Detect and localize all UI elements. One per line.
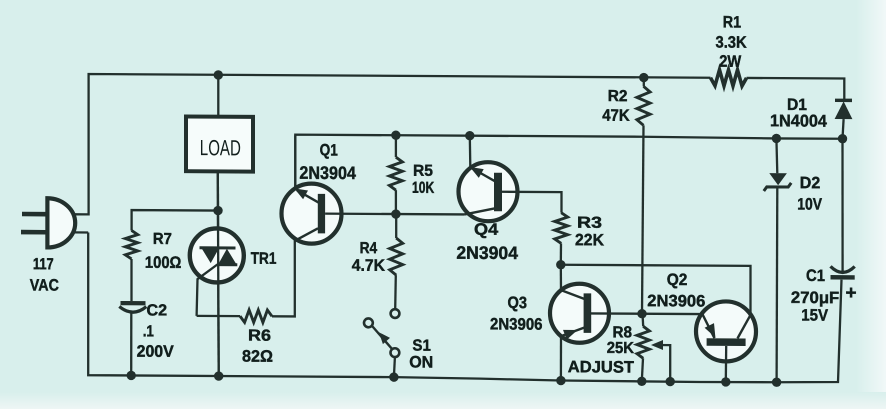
- wire top rail left segment: [74, 74, 711, 218]
- wire second rail (DC rail): [295, 135, 842, 192]
- node bottom rail / D2: [772, 378, 781, 387]
- node R3 / Q3 collector: [556, 260, 565, 269]
- svg-text:S1: S1: [412, 338, 431, 355]
- wire D2 top: [775, 138, 778, 173]
- plug prong bottom: [21, 230, 46, 235]
- node junction R7 branch: [213, 206, 222, 215]
- svg-text:ON: ON: [409, 353, 433, 371]
- svg-text:R8: R8: [613, 324, 633, 341]
- svg-text:2N3906: 2N3906: [647, 292, 705, 310]
- node bottom rail / S1: [389, 372, 398, 381]
- svg-text:117: 117: [33, 256, 54, 273]
- svg-text:R1: R1: [723, 13, 741, 31]
- wire node to Q2 collector: [561, 265, 751, 315]
- wire second rail to Q4 collector: [469, 136, 472, 167]
- node junction top rail to R2: [639, 73, 648, 82]
- wire R6 to Q1 emitter: [272, 228, 318, 317]
- Q1 base bar: [318, 194, 325, 234]
- wire Q1 collector to second rail: [294, 135, 296, 188]
- wire R4 to switch: [394, 275, 397, 309]
- transistor Q1 2N3904: [282, 183, 342, 243]
- resistor R6: [240, 310, 272, 323]
- svg-text:2N3904: 2N3904: [456, 243, 518, 263]
- triac TR1 top bar: [200, 246, 236, 249]
- node bottom rail / R8: [637, 377, 646, 386]
- capacitor C1 270uF: [831, 266, 855, 272]
- resistor R7: [125, 230, 137, 259]
- plug body 117 VAC source: [47, 198, 75, 247]
- svg-text:15V: 15V: [801, 306, 828, 324]
- switch S1 bottom terminal: [391, 348, 400, 357]
- wire top rail to LOAD box: [217, 75, 219, 117]
- triac TR1 right triangle: [218, 249, 236, 264]
- node bottom rail / Q2 base: [721, 377, 730, 386]
- node bottom rail / C2: [127, 371, 136, 380]
- svg-text:Q2: Q2: [667, 271, 688, 289]
- Q4 emitter diagonal: [465, 208, 495, 214]
- plug prong top: [22, 212, 46, 217]
- Q3 collector diagonal: [561, 290, 585, 299]
- svg-text:4.7K: 4.7K: [352, 257, 385, 275]
- svg-text:200V: 200V: [137, 343, 174, 361]
- triac TR1 left triangle: [201, 248, 219, 263]
- svg-text:ADJUST: ADJUST: [568, 358, 634, 376]
- switch S1 lever: [372, 326, 392, 349]
- wire TR1 gate: [197, 264, 218, 316]
- svg-text:R3: R3: [577, 215, 602, 232]
- wire LOAD to TR1 to bottom rail: [217, 171, 220, 376]
- wire second rail to R5: [395, 135, 397, 157]
- wire R7 to C2: [130, 259, 132, 301]
- node Q3 base / R8 top: [637, 309, 646, 318]
- node second rail / D2: [772, 134, 781, 143]
- transistor Q2 2N3906: [696, 301, 756, 361]
- Q2 collector diagonal: [738, 315, 751, 339]
- wire R7 branch top: [132, 210, 218, 231]
- node junction top rail to LOAD: [214, 70, 223, 79]
- svg-text:LOAD: LOAD: [200, 135, 241, 160]
- Q2 emitter diagonal with arrow: [702, 313, 715, 338]
- svg-text:TR1: TR1: [251, 250, 277, 268]
- svg-text:+: +: [846, 283, 857, 304]
- wire R3 to node: [560, 243, 563, 264]
- svg-text:1N4004: 1N4004: [770, 111, 828, 130]
- wire gate to R6: [197, 315, 240, 318]
- svg-text:Q3: Q3: [508, 294, 528, 312]
- triac TR1 bottom bar: [217, 263, 237, 266]
- resistor R5: [389, 157, 402, 190]
- svg-text:R5: R5: [413, 163, 433, 180]
- node bottom rail / R8 wiper: [666, 377, 675, 386]
- svg-text:R2: R2: [608, 88, 628, 105]
- svg-text:R4: R4: [360, 240, 378, 257]
- transistor Q4 2N3904: [459, 162, 518, 221]
- triac TR1: [190, 228, 244, 282]
- wire plug bottom lead: [74, 231, 89, 233]
- svg-text:22K: 22K: [575, 231, 604, 249]
- svg-text:R7: R7: [153, 231, 172, 248]
- svg-text:3.3K: 3.3K: [716, 34, 747, 52]
- svg-text:100Ω: 100Ω: [145, 254, 182, 272]
- switch S1 top terminal: [391, 309, 400, 318]
- wire switch to bottom rail: [394, 357, 395, 377]
- node R5/R4 junction: [391, 209, 400, 218]
- svg-text:D2: D2: [800, 174, 821, 192]
- Q1 collector diagonal with arrow: [297, 190, 319, 203]
- Q1 emitter diagonal: [295, 228, 318, 241]
- wire base line to R4: [395, 214, 397, 238]
- Q3 base bar: [584, 293, 592, 333]
- wire R5 to base line: [395, 190, 397, 214]
- potentiometer R8: [641, 314, 644, 327]
- svg-text:82Ω: 82Ω: [242, 348, 273, 366]
- Q3 emitter diagonal with arrow: [561, 327, 585, 336]
- diode D1 1N4004: [835, 99, 852, 103]
- svg-text:10K: 10K: [412, 180, 435, 197]
- svg-text:Q4: Q4: [474, 221, 499, 239]
- wire D2 to bottom rail: [775, 187, 778, 382]
- resistor R4: [390, 238, 403, 275]
- svg-text:10V: 10V: [797, 195, 822, 213]
- wire Q4 base to R3: [502, 192, 562, 213]
- Q4 base bar: [494, 173, 502, 212]
- wire top rail right segment: [747, 78, 845, 101]
- node second rail / Q4 collector: [465, 131, 474, 140]
- node second rail / D1-C1: [838, 134, 847, 143]
- wire R2 top: [643, 78, 645, 87]
- svg-text:25K: 25K: [607, 340, 635, 357]
- LOAD box: [186, 116, 253, 171]
- zener diode D2 10V: [769, 173, 787, 185]
- switch S1 lever contact: [364, 318, 373, 327]
- svg-text:R6: R6: [248, 328, 271, 345]
- wire node down to Q3: [560, 265, 563, 290]
- capacitor C2: [121, 301, 146, 305]
- Q4 collector diagonal with arrow: [473, 169, 496, 182]
- svg-text:270μF: 270μF: [791, 289, 839, 307]
- svg-text:47K: 47K: [602, 107, 630, 125]
- wire C2 to bottom rail: [130, 312, 132, 376]
- svg-text:C1: C1: [806, 267, 825, 285]
- wire D1 to second rail: [843, 119, 844, 139]
- node bottom rail / TR1: [214, 371, 223, 380]
- wire Q3 base line to Q2 emitter: [591, 312, 700, 315]
- svg-text:2W: 2W: [719, 53, 741, 71]
- R8 wiper arrow: [654, 345, 670, 382]
- node bottom rail / Q3 emitter: [556, 376, 565, 385]
- wire Q3 emitter to bottom rail: [560, 336, 562, 380]
- transistor Q3 2N3906: [550, 284, 609, 343]
- svg-text:2N3904: 2N3904: [299, 163, 356, 183]
- wire Q2 base to bottom rail: [725, 346, 728, 382]
- wire bottom rail: [88, 232, 841, 382]
- wire Q1 base line: [325, 212, 464, 215]
- resistor R1: [711, 70, 747, 86]
- resistor R2: [637, 86, 650, 125]
- Q2 base bar: [707, 338, 746, 346]
- node second rail / R5: [391, 131, 400, 140]
- svg-text:.1: .1: [143, 323, 154, 340]
- resistor R3: [555, 213, 568, 244]
- wire C1 top: [841, 139, 843, 271]
- svg-text:VAC: VAC: [30, 276, 59, 294]
- svg-text:C2: C2: [147, 302, 168, 319]
- svg-text:Q1: Q1: [320, 141, 338, 159]
- wire R2 to R8 node: [642, 125, 644, 313]
- svg-text:2N3906: 2N3906: [490, 315, 543, 333]
